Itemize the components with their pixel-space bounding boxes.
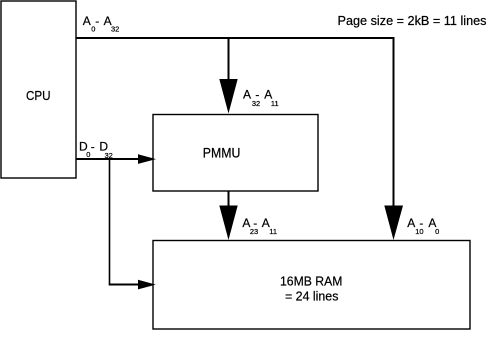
svg-text:-: - <box>95 14 99 28</box>
wire: D-bus horizontal from CPU to PMMU <box>76 158 139 160</box>
svg-text:A: A <box>83 14 91 28</box>
wire: D branch horizontal into RAM <box>109 284 139 286</box>
svg-text:11: 11 <box>271 99 279 108</box>
wire: A-bus horizontal from CPU to right corner <box>76 37 395 39</box>
wire: A-bus vertical right segment down to RAM <box>393 37 395 207</box>
svg-text:-: - <box>419 216 423 230</box>
svg-text:A: A <box>407 216 415 230</box>
wire: PMMU bottom to RAM <box>228 191 230 207</box>
label A0 - A32 (top address bus) <box>83 14 120 34</box>
svg-text:-: - <box>91 140 95 154</box>
CPU box <box>1 1 76 178</box>
svg-text:CPU: CPU <box>26 88 51 103</box>
svg-text:A: A <box>243 87 251 101</box>
RAM box <box>153 241 470 330</box>
arrowhead into RAM top (center) <box>219 206 237 241</box>
svg-text:= 24 lines: = 24 lines <box>285 288 339 303</box>
svg-text:PMMU: PMMU <box>203 145 241 160</box>
arrowhead into RAM top (right) <box>384 206 403 241</box>
label A23 - A11 <box>242 216 277 236</box>
label D0 - D32 <box>79 140 113 160</box>
label A32 - A11 <box>243 87 279 108</box>
svg-text:-: - <box>255 87 259 101</box>
arrowhead into RAM left <box>138 280 156 290</box>
arrowhead into PMMU left <box>138 154 156 164</box>
svg-text:16MB RAM: 16MB RAM <box>280 273 342 288</box>
svg-text:32: 32 <box>111 25 119 34</box>
svg-text:32: 32 <box>105 151 113 160</box>
svg-text:0: 0 <box>435 227 439 236</box>
wire: D branch vertical down <box>109 158 111 285</box>
svg-text:Page size = 2kB = 11 lines: Page size = 2kB = 11 lines <box>338 13 487 28</box>
arrowhead into PMMU top <box>219 79 237 114</box>
svg-text:11: 11 <box>269 227 277 236</box>
svg-text:-: - <box>253 216 257 230</box>
PMMU box U-PMMU <box>153 115 318 192</box>
label A10 - A0 <box>407 216 439 236</box>
wire: branch from A-bus down to PMMU <box>228 37 230 80</box>
